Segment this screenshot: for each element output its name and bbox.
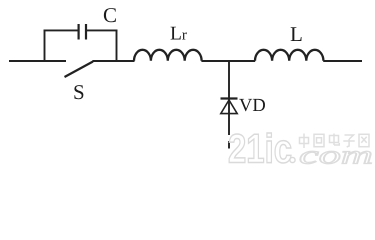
wire: capacitor branch top-left segment xyxy=(44,29,78,31)
watermark char 子 xyxy=(343,135,354,147)
wire: capacitor branch top-right segment xyxy=(87,29,118,31)
svg-text:21ic: 21ic xyxy=(228,126,292,172)
watermark char 网 xyxy=(359,134,369,146)
svg-text:L: L xyxy=(290,22,303,46)
svg-text:C: C xyxy=(103,3,117,27)
svg-text:Lr: Lr xyxy=(170,24,187,45)
watermark char 电 xyxy=(330,134,340,146)
inductor L (4 humps) xyxy=(255,50,323,61)
wire: diode branch vertical (upper) xyxy=(228,61,230,99)
svg-text:com: com xyxy=(299,141,373,170)
watermark char 中 xyxy=(300,134,309,149)
wire: diode branch vertical tail (broken by watermark) xyxy=(228,141,230,149)
switch S blade xyxy=(65,62,94,78)
svg-text:S: S xyxy=(73,80,85,104)
watermark logotype period xyxy=(290,157,295,162)
capacitor C (right plate) xyxy=(85,24,87,40)
svg-text:VD: VD xyxy=(239,96,266,116)
wire: right output segment xyxy=(323,60,362,62)
diode VD cathode bar xyxy=(221,97,238,99)
wire: Lr to node and on to inductor L xyxy=(201,60,255,62)
watermark 21ic.com 中国电子网 xyxy=(228,126,373,172)
wire: left input segment xyxy=(9,60,66,62)
inductor Lr (4 humps) xyxy=(134,50,202,61)
wire: capacitor branch left riser xyxy=(44,30,46,62)
wire: capacitor branch right riser xyxy=(116,30,118,62)
capacitor C (left plate) xyxy=(77,24,79,40)
watermark char 国 xyxy=(314,134,324,146)
wire: switch to inductor Lr xyxy=(93,60,135,62)
diode VD triangle (anode, pointing up) xyxy=(221,100,237,114)
watermark chinese block glyphs 中国电子网 xyxy=(300,134,370,149)
wire: diode branch vertical (lower) xyxy=(228,99,230,135)
